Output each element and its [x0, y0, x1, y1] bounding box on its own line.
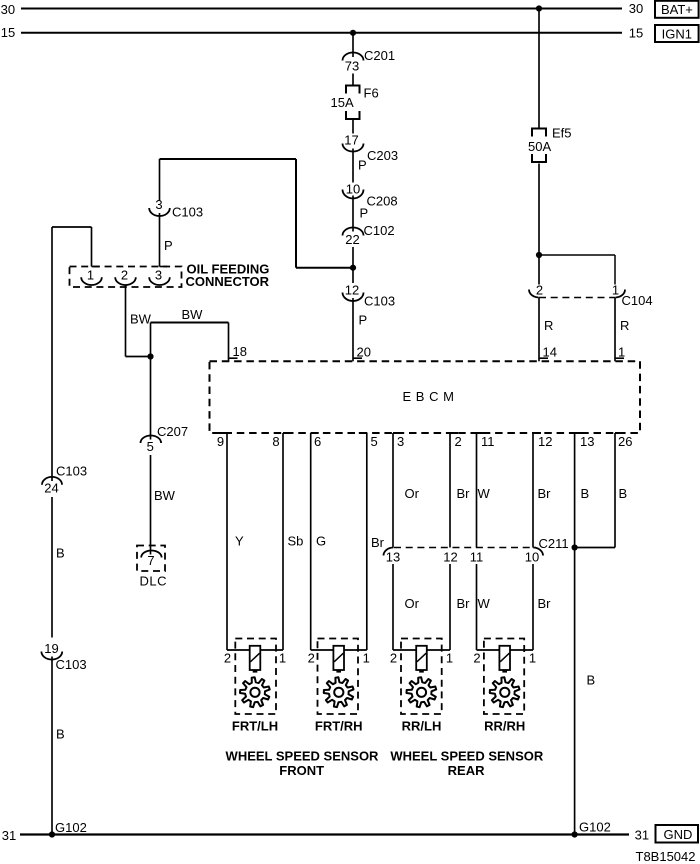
svg-text:BW: BW [130, 311, 152, 326]
svg-text:G102: G102 [579, 820, 611, 835]
svg-text:C103: C103 [56, 463, 87, 478]
svg-text:BW: BW [154, 488, 176, 503]
svg-text:FRT/LH: FRT/LH [232, 718, 278, 733]
svg-text:8: 8 [272, 434, 279, 449]
svg-text:RR/LH: RR/LH [402, 718, 442, 733]
svg-text:15: 15 [1, 25, 15, 40]
svg-text:C201: C201 [364, 48, 395, 63]
svg-text:10: 10 [525, 550, 539, 565]
svg-text:B: B [619, 486, 628, 501]
svg-text:R: R [620, 318, 629, 333]
svg-text:P: P [358, 158, 367, 173]
svg-text:E B C M: E B C M [403, 389, 455, 404]
svg-text:73: 73 [345, 59, 359, 74]
svg-text:1: 1 [529, 651, 536, 666]
svg-text:2: 2 [536, 283, 543, 298]
svg-text:Br: Br [457, 486, 471, 501]
svg-text:31: 31 [635, 828, 649, 843]
svg-text:P: P [360, 205, 369, 220]
svg-text:1: 1 [612, 283, 619, 298]
svg-text:W: W [478, 596, 491, 611]
svg-text:2: 2 [455, 434, 462, 449]
svg-text:Br: Br [538, 596, 552, 611]
svg-text:7: 7 [147, 553, 154, 568]
svg-text:REAR: REAR [448, 763, 485, 778]
svg-text:26: 26 [618, 434, 632, 449]
svg-text:15A: 15A [331, 95, 354, 110]
svg-text:31: 31 [2, 828, 16, 843]
svg-text:30: 30 [629, 1, 643, 16]
svg-text:C104: C104 [622, 293, 653, 308]
svg-text:24: 24 [44, 481, 58, 496]
svg-text:2: 2 [473, 651, 480, 666]
svg-text:C103: C103 [364, 294, 395, 309]
svg-text:2: 2 [390, 651, 397, 666]
svg-text:P: P [359, 313, 368, 328]
svg-text:F6: F6 [364, 86, 379, 101]
svg-text:1: 1 [87, 268, 94, 283]
svg-text:Sb: Sb [288, 534, 304, 549]
svg-text:BAT+: BAT+ [661, 2, 693, 17]
svg-text:13: 13 [386, 550, 400, 565]
svg-text:1: 1 [279, 651, 286, 666]
svg-text:12: 12 [538, 434, 552, 449]
svg-text:19: 19 [44, 641, 58, 656]
svg-text:20: 20 [357, 345, 371, 360]
svg-text:9: 9 [217, 434, 224, 449]
svg-text:5: 5 [371, 434, 378, 449]
svg-text:6: 6 [314, 434, 321, 449]
svg-text:C203: C203 [367, 148, 398, 163]
svg-text:15: 15 [629, 25, 643, 40]
svg-text:B: B [587, 673, 596, 688]
svg-text:11: 11 [470, 550, 484, 565]
svg-text:RR/RH: RR/RH [484, 718, 525, 733]
svg-text:C208: C208 [367, 194, 398, 209]
svg-text:1: 1 [363, 651, 370, 666]
svg-text:C207: C207 [157, 424, 188, 439]
svg-text:GND: GND [664, 827, 693, 842]
svg-text:13: 13 [580, 434, 594, 449]
svg-text:50A: 50A [528, 139, 551, 154]
svg-text:BW: BW [182, 307, 204, 322]
svg-text:C103: C103 [56, 657, 87, 672]
svg-text:Br: Br [538, 486, 552, 501]
svg-text:2: 2 [308, 651, 315, 666]
svg-text:22: 22 [345, 232, 359, 247]
svg-text:C102: C102 [364, 223, 395, 238]
svg-text:C103: C103 [172, 205, 203, 220]
svg-text:5: 5 [147, 439, 154, 454]
svg-text:WHEEL SPEED SENSOR: WHEEL SPEED SENSOR [226, 749, 380, 764]
svg-text:B: B [56, 727, 65, 742]
svg-text:3: 3 [155, 268, 162, 283]
svg-text:CONNECTOR: CONNECTOR [186, 274, 270, 289]
svg-text:IGN1: IGN1 [662, 26, 692, 41]
svg-text:Or: Or [405, 596, 420, 611]
svg-text:14: 14 [543, 345, 557, 360]
svg-text:Br: Br [371, 535, 385, 550]
svg-text:Ef5: Ef5 [552, 126, 572, 141]
svg-text:12: 12 [345, 283, 359, 298]
svg-text:W: W [478, 486, 491, 501]
svg-text:18: 18 [233, 344, 247, 359]
svg-text:10: 10 [346, 182, 360, 197]
svg-text:C211: C211 [539, 536, 569, 551]
svg-text:R: R [544, 318, 553, 333]
svg-text:2: 2 [224, 651, 231, 666]
svg-text:T8B15042: T8B15042 [636, 849, 696, 864]
svg-text:12: 12 [443, 550, 457, 565]
svg-text:17: 17 [344, 133, 358, 148]
svg-text:FRONT: FRONT [279, 763, 324, 778]
svg-text:3: 3 [397, 434, 404, 449]
svg-text:Br: Br [457, 596, 471, 611]
svg-text:30: 30 [1, 2, 15, 17]
svg-text:1: 1 [618, 345, 625, 360]
svg-text:2: 2 [121, 268, 128, 283]
svg-text:P: P [164, 238, 173, 253]
svg-text:1: 1 [446, 651, 453, 666]
svg-text:DLC: DLC [140, 574, 168, 589]
svg-text:Or: Or [405, 486, 420, 501]
svg-text:G102: G102 [55, 820, 87, 835]
svg-text:WHEEL SPEED SENSOR: WHEEL SPEED SENSOR [390, 749, 544, 764]
svg-text:B: B [581, 486, 590, 501]
svg-text:B: B [56, 546, 65, 561]
svg-text:FRT/RH: FRT/RH [315, 718, 363, 733]
svg-text:11: 11 [481, 434, 495, 449]
svg-text:G: G [316, 534, 326, 549]
svg-text:Y: Y [235, 534, 244, 549]
